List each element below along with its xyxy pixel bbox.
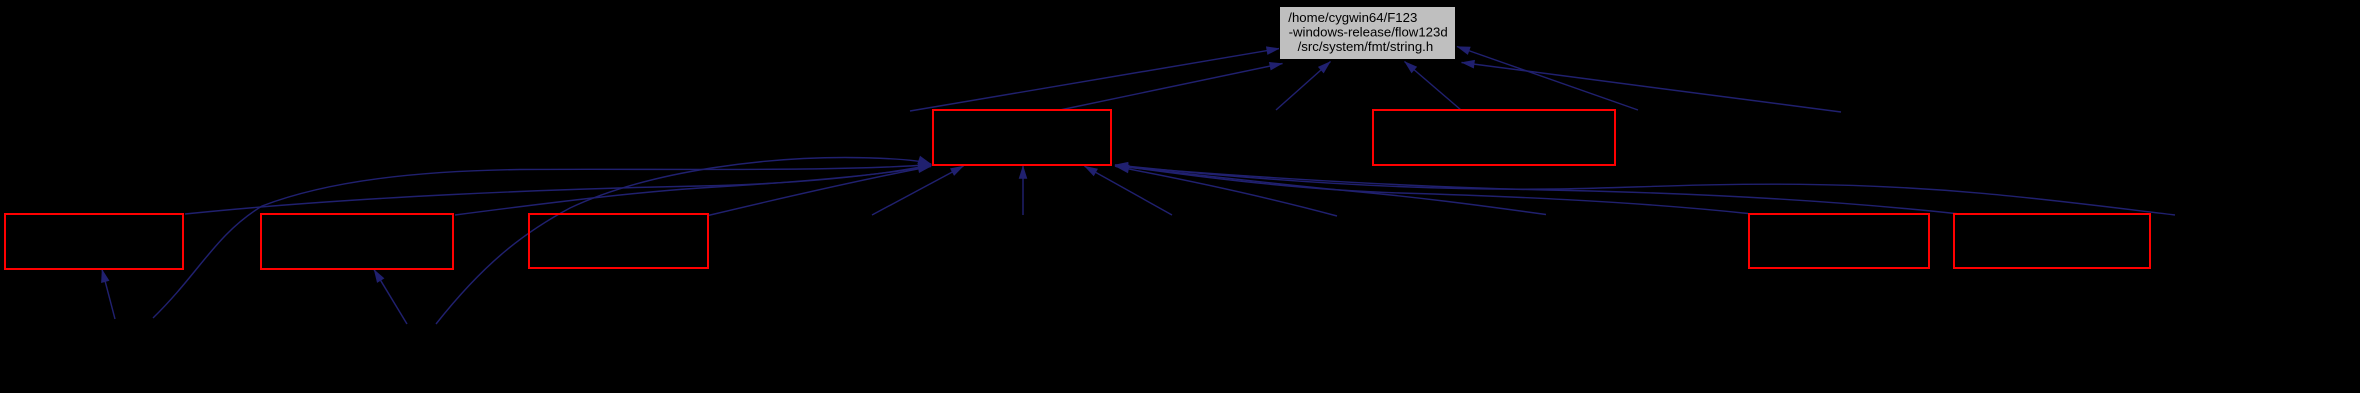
- edge R2 -> root G: [1405, 62, 1462, 111]
- edge A -> R1 bottom-left corner: [185, 165, 932, 214]
- edge below -> B: [374, 270, 407, 325]
- edge C -> R1 bottom-left corner: [708, 166, 931, 215]
- node G: /home/cygwin64/F123-windows-release/flow123d/src/system/fmt/string.h (root, gray): [1280, 7, 1456, 60]
- node A (red box, row 3 far left): [5, 214, 183, 269]
- svg-text:-windows-release/flow123d: -windows-release/flow123d: [1289, 25, 1448, 40]
- edge invisible(1546) -> R1 bottom-right corner: [1115, 166, 1546, 214]
- node E (red box, row 3 far right): [1954, 214, 2150, 268]
- edge below-right stub -> R1 bottom: [1085, 166, 1173, 215]
- edge below-center stub -> R1 bottom: [1022, 166, 1024, 215]
- edge R1 -> root G: [1060, 64, 1283, 111]
- edge invisible-right-2 -> root G: [1462, 63, 1842, 113]
- edge E -> R1 bottom-right corner: [1115, 166, 1960, 214]
- edge invisible(1337) -> R1 bottom-right corner: [1116, 167, 1337, 216]
- node B (red box, row 3): [261, 214, 453, 269]
- edge below -> A: [102, 269, 115, 319]
- node R1 (red box, center): [933, 110, 1111, 165]
- edge invisible-mid -> root G: [1276, 62, 1331, 111]
- edge N4b (below B) -> R1, arcing curve: [436, 158, 931, 325]
- edge invisible-left-of-R1 -> root G: [910, 49, 1280, 112]
- node R2 (red box, right of root): [1373, 110, 1615, 165]
- svg-text:/home/cygwin64/F123: /home/cygwin64/F123: [1288, 10, 1417, 25]
- edge far-right invisible -> R1, long curve over D and E: [1115, 165, 2175, 215]
- edge B -> R1 bottom-left corner: [455, 166, 932, 215]
- edge N4a (below A) -> R1, long flat curve: [153, 165, 932, 319]
- node C (red box, row 3): [529, 214, 708, 268]
- edge invisible-right-1 -> root G: [1457, 47, 1638, 111]
- edge D -> R1 bottom-right corner: [1115, 165, 1748, 213]
- svg-text:/src/system/fmt/string.h: /src/system/fmt/string.h: [1298, 39, 1434, 54]
- edge below-left stub -> R1 bottom: [872, 166, 964, 215]
- node D (red box, row 3 right): [1749, 214, 1929, 268]
